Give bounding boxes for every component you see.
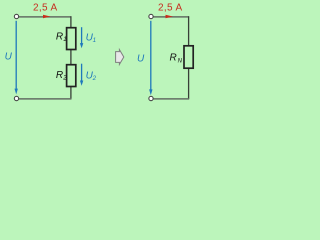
voltage arrow U right: [150, 21, 152, 90]
node terminal top-left: [14, 14, 18, 18]
wire right circuit top vertical: [188, 16, 190, 46]
svg-text:2,5 A: 2,5 A: [33, 3, 58, 14]
current arrow I right: [166, 15, 173, 19]
voltage arrow U left: [15, 21, 17, 89]
svg-text:R: R: [56, 70, 63, 81]
wire between R1 and R2: [70, 49, 72, 64]
node terminal top-right: [149, 14, 153, 18]
wire left circuit bottom horizontal: [19, 98, 72, 100]
svg-text:2: 2: [62, 74, 67, 81]
voltage arrow U1: [81, 27, 83, 43]
svg-text:U: U: [137, 53, 145, 64]
resistor R2: [67, 65, 76, 87]
wire left circuit bottom vertical: [70, 86, 72, 99]
node terminal bottom-left: [14, 96, 18, 100]
svg-text:R: R: [170, 53, 177, 64]
svg-text:U: U: [5, 51, 13, 62]
wire right circuit bottom horizontal: [153, 98, 189, 100]
svg-text:R: R: [56, 32, 63, 43]
resistor R1: [67, 28, 76, 50]
node terminal bottom-right: [149, 96, 153, 100]
wire left circuit top horizontal: [19, 16, 72, 18]
wire right circuit top horizontal: [153, 16, 189, 18]
resistor RN: [184, 46, 193, 68]
wire right circuit bottom vertical: [188, 68, 190, 99]
svg-text:1: 1: [93, 37, 96, 44]
svg-text:N: N: [178, 58, 183, 64]
svg-text:2: 2: [92, 75, 97, 82]
equivalence arrow: [116, 50, 124, 65]
svg-text:2,5 A: 2,5 A: [158, 3, 183, 14]
wire left circuit top vertical: [70, 16, 72, 28]
current arrow I left: [43, 15, 50, 19]
svg-text:1: 1: [63, 36, 66, 43]
voltage arrow U2: [81, 64, 83, 81]
